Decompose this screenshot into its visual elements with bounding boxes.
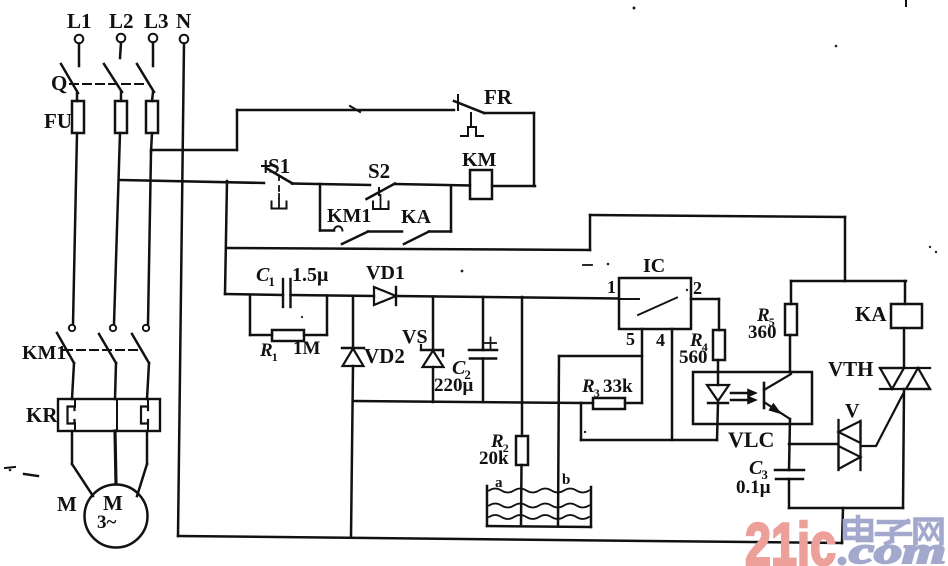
svg-text:1M: 1M — [293, 338, 321, 359]
svg-text:VTH: VTH — [828, 357, 874, 381]
svg-text:360: 360 — [748, 322, 777, 343]
svg-text:1: 1 — [272, 350, 278, 364]
svg-text:M: M — [57, 492, 77, 516]
svg-text:VLC: VLC — [728, 427, 774, 452]
svg-text:33k: 33k — [603, 376, 633, 397]
svg-text:L3: L3 — [144, 9, 169, 33]
svg-text:b: b — [562, 472, 570, 488]
svg-text:KA: KA — [401, 206, 432, 228]
svg-text:R: R — [581, 376, 595, 397]
svg-text:L2: L2 — [109, 9, 134, 33]
svg-text:0.1μ: 0.1μ — [736, 477, 771, 498]
svg-text:3~: 3~ — [97, 512, 117, 533]
svg-text:1: 1 — [268, 274, 275, 289]
svg-text:3: 3 — [594, 386, 600, 400]
svg-text:N: N — [176, 9, 191, 33]
svg-text:20k: 20k — [479, 448, 509, 469]
svg-text:S2: S2 — [368, 159, 390, 183]
svg-text:KM1: KM1 — [327, 205, 371, 227]
svg-text:1: 1 — [607, 277, 616, 297]
svg-text:L1: L1 — [67, 9, 92, 33]
svg-text:560: 560 — [679, 347, 708, 368]
svg-text:2: 2 — [693, 278, 702, 298]
svg-text:Q: Q — [51, 71, 67, 95]
svg-text:FU: FU — [44, 109, 72, 133]
svg-text:IC: IC — [643, 255, 665, 277]
svg-text:R: R — [259, 340, 273, 361]
svg-text:KA: KA — [855, 302, 887, 326]
svg-text:1.5μ: 1.5μ — [292, 264, 329, 286]
svg-text:220μ: 220μ — [434, 375, 474, 396]
svg-text:4: 4 — [656, 330, 665, 350]
svg-text:VD2: VD2 — [364, 344, 405, 368]
svg-text:21ic: 21ic — [745, 511, 836, 566]
svg-text:5: 5 — [626, 329, 635, 349]
svg-text:FR: FR — [484, 85, 513, 109]
svg-text:KR: KR — [26, 403, 58, 427]
svg-text:V: V — [845, 400, 860, 422]
svg-text:S1: S1 — [268, 154, 290, 178]
svg-text:KM1: KM1 — [22, 342, 66, 364]
svg-text:VD1: VD1 — [366, 262, 405, 284]
svg-text:a: a — [495, 475, 503, 491]
svg-text:VS: VS — [402, 326, 428, 348]
svg-text:KM: KM — [462, 149, 497, 171]
